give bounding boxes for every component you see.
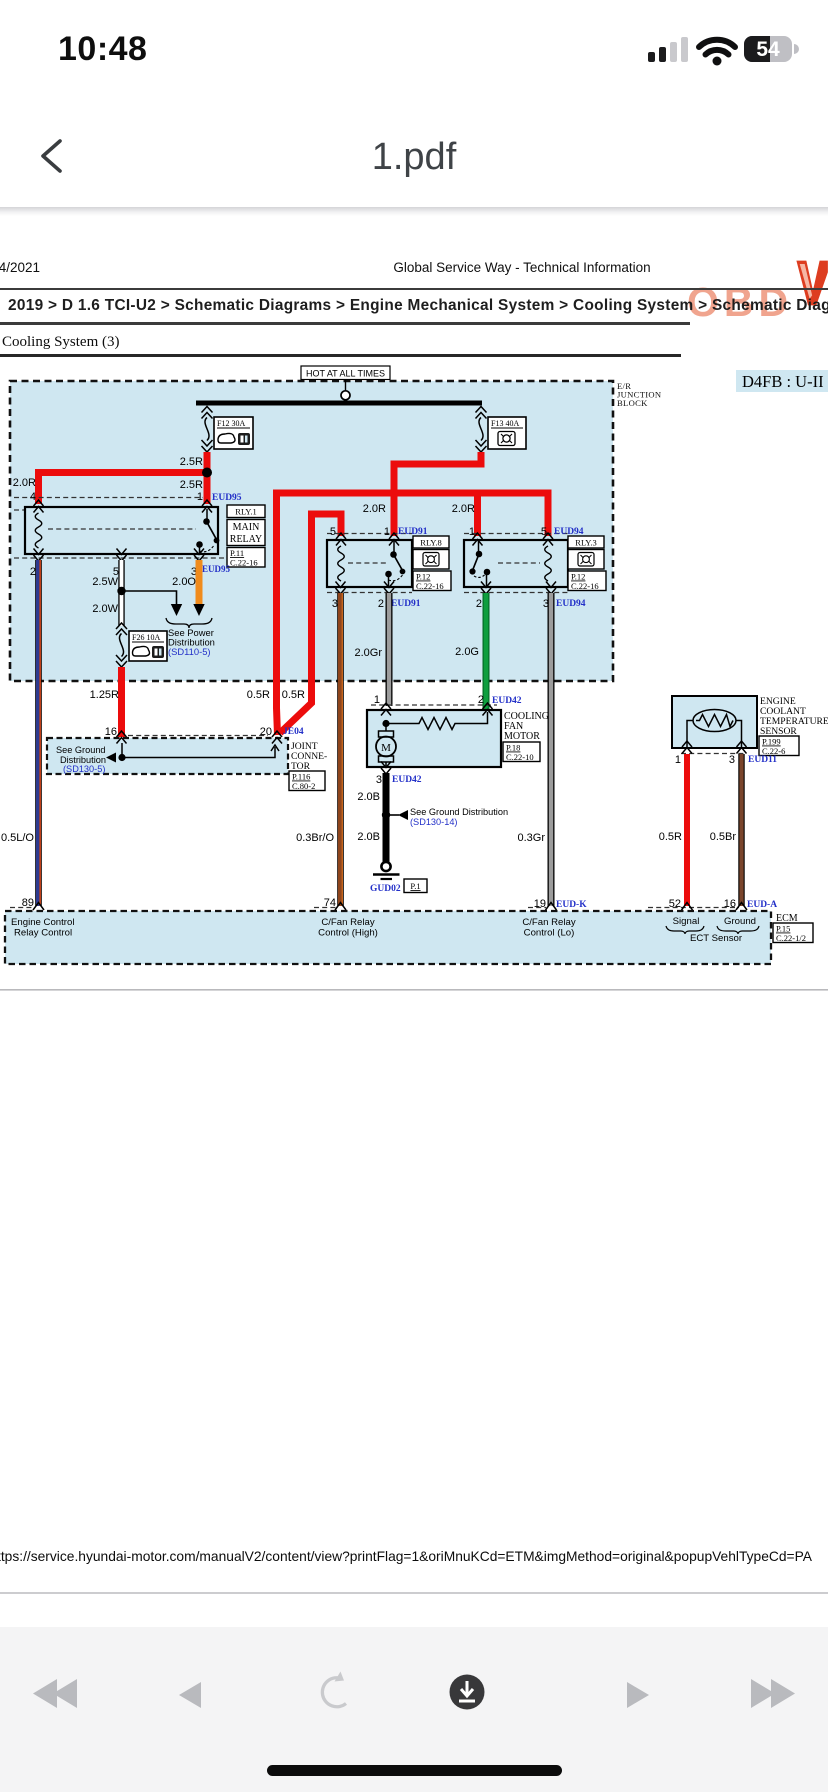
pin 3 xyxy=(543,598,549,610)
svg-text:2.0O: 2.0O xyxy=(172,576,196,588)
svg-text:20: 20 xyxy=(260,726,272,738)
svg-text:2.0B: 2.0B xyxy=(357,831,380,843)
svg-text:P.12: P.12 xyxy=(416,572,430,582)
svg-text:RLY.1: RLY.1 xyxy=(235,507,256,517)
value 0.5Br xyxy=(710,831,737,843)
pin 1 xyxy=(675,754,681,766)
node (hot feed) xyxy=(341,391,350,400)
pin 3 xyxy=(191,566,197,578)
pin symbol ECM-74 xyxy=(335,903,346,911)
label MAIN RELAY xyxy=(227,520,265,546)
svg-text:2.0Gr: 2.0Gr xyxy=(354,647,382,659)
svg-text:EUD95: EUD95 xyxy=(202,564,231,574)
refresh xyxy=(322,1672,346,1707)
wire 0.5R (C/Fan high feed) xyxy=(277,493,278,735)
svg-text:2: 2 xyxy=(476,598,482,610)
motor connector row xyxy=(371,704,497,706)
value 2.0G xyxy=(455,646,479,658)
wire 0.5R (ECT signal) xyxy=(684,754,690,906)
fan relay 2 connector rows xyxy=(464,534,568,593)
net GUD02 xyxy=(370,884,401,894)
svg-text:C/Fan Relay: C/Fan Relay xyxy=(321,917,375,928)
svg-text:0.5R: 0.5R xyxy=(247,689,270,701)
download xyxy=(450,1675,485,1710)
wire 2.0G xyxy=(483,593,490,711)
E/R junction block (shaded area) xyxy=(10,381,613,681)
value 2.5W xyxy=(92,576,118,588)
net C/Fan Relay Control (Lo) xyxy=(522,917,576,939)
coil (fan relay 1) xyxy=(338,546,345,581)
wire 0.5L/O (engine control relay) xyxy=(38,560,40,906)
pin symbol relay pin1 xyxy=(202,500,212,513)
label ENGINE COOLANT TEMPERATURE SENSOR xyxy=(760,696,828,737)
main relay connector row xyxy=(14,498,232,559)
fan relay 1 connector rows xyxy=(327,534,412,593)
value 0.3Br/O xyxy=(296,832,334,844)
svg-text:EUD11: EUD11 xyxy=(748,755,777,765)
pin symbol ECM-89 xyxy=(33,903,44,911)
svg-text:MOTOR: MOTOR xyxy=(504,731,540,742)
pin symbol fanrelay1 pin2 xyxy=(384,582,394,595)
svg-text:See Ground Distribution: See Ground Distribution xyxy=(410,807,508,817)
pin symbol JE04-20 xyxy=(272,731,282,744)
motor M xyxy=(376,724,396,768)
svg-text:GUD02: GUD02 xyxy=(370,884,401,894)
pin 2 xyxy=(378,598,384,610)
svg-text:BLOCK: BLOCK xyxy=(617,398,648,408)
svg-text:Control (High): Control (High) xyxy=(318,928,378,939)
svg-text:16: 16 xyxy=(105,726,117,738)
net Ground xyxy=(724,916,756,927)
fuse F12 30A xyxy=(202,407,213,453)
thermistor (ECT) xyxy=(687,710,742,749)
svg-text:2: 2 xyxy=(30,566,36,578)
svg-text:52: 52 xyxy=(669,898,681,910)
svg-text:2.5W: 2.5W xyxy=(92,576,118,588)
pin 5 xyxy=(330,526,336,538)
value 2.0B xyxy=(357,791,380,803)
battery with percent xyxy=(744,36,799,62)
svg-text:5: 5 xyxy=(330,526,336,538)
wire 0.3Br/O xyxy=(340,593,342,906)
pin 5 xyxy=(541,526,547,538)
svg-text:2.0G: 2.0G xyxy=(455,646,479,658)
label P.199 C.22-6 xyxy=(759,736,799,756)
pin symbol fanrelay2 pin5 xyxy=(543,533,553,546)
label P.12 C.22-16 xyxy=(568,571,606,591)
svg-text:2.0R: 2.0R xyxy=(452,503,475,515)
svg-text:3: 3 xyxy=(332,598,338,610)
pin 1 xyxy=(197,491,203,503)
connector EUD42 xyxy=(392,775,422,785)
connector EUD91 xyxy=(398,527,428,537)
switch (fan relay 2) xyxy=(470,541,490,587)
pin 3 xyxy=(376,774,382,786)
pin symbol ECM-52 xyxy=(682,903,693,911)
connector EUD91 xyxy=(391,599,421,609)
svg-text:89: 89 xyxy=(22,897,34,909)
svg-text:1.25R: 1.25R xyxy=(90,689,119,701)
home indicator xyxy=(267,1765,562,1776)
connector EUD94 xyxy=(554,527,584,537)
pin symbol fanrelay1 pin1 xyxy=(389,533,399,546)
svg-text:C/Fan Relay: C/Fan Relay xyxy=(522,917,576,928)
wire 2.0O xyxy=(196,560,203,604)
svg-text:2.0R: 2.0R xyxy=(363,503,386,515)
svg-text:2: 2 xyxy=(378,598,384,610)
pin symbol relay pin5 xyxy=(117,549,127,562)
svg-text:HOT AT ALL TIMES: HOT AT ALL TIMES xyxy=(306,369,385,379)
svg-text:ECT Sensor: ECT Sensor xyxy=(690,933,743,944)
pin symbol ECT pin3 xyxy=(737,741,747,754)
svg-text:1: 1 xyxy=(374,694,380,706)
pin symbol fanrelay1 pin3 xyxy=(336,582,346,595)
label P.1 xyxy=(404,879,427,893)
value 2.0R xyxy=(452,503,475,515)
page separator xyxy=(0,989,828,991)
svg-text:P.15: P.15 xyxy=(776,924,790,934)
value 0.5R xyxy=(247,689,270,701)
pin 2 xyxy=(478,694,484,706)
pin symbol ECM-19 xyxy=(546,903,557,911)
connector EUD95 xyxy=(202,564,231,574)
connector EUD94 xyxy=(556,599,586,609)
svg-text:1: 1 xyxy=(675,754,681,766)
svg-text:2.5R: 2.5R xyxy=(180,479,203,491)
connector EUD42 xyxy=(492,696,522,706)
svg-text:Ground: Ground xyxy=(724,916,756,927)
pin 16 xyxy=(724,898,736,910)
pin symbol fanrelay2 pin2 xyxy=(481,582,491,595)
svg-text:MAIN: MAIN xyxy=(233,522,260,533)
watermark xyxy=(687,279,793,326)
pin symbol JE04-16 xyxy=(117,731,127,744)
pin 52 xyxy=(669,898,681,910)
joint connector row xyxy=(128,735,268,737)
ECT connector row xyxy=(681,753,746,755)
wire 2.0R from F13 xyxy=(394,452,481,536)
pin symbol motor pin2 xyxy=(483,703,493,716)
relay fan-1 box xyxy=(327,540,412,587)
value 2.0R xyxy=(13,477,36,489)
label RLY.1 xyxy=(227,505,265,518)
wire 2.0B xyxy=(383,773,390,862)
svg-text:EUD42: EUD42 xyxy=(392,775,422,785)
arrow (power distribution O) xyxy=(193,604,204,616)
svg-text:Control (Lo): Control (Lo) xyxy=(524,928,575,939)
pin 3 xyxy=(729,754,735,766)
label P.15 C.22-1/2 xyxy=(773,923,813,943)
arrow (power distribution W) xyxy=(171,604,182,616)
value 2.5R xyxy=(180,479,203,491)
svg-text:F26 10A: F26 10A xyxy=(132,633,160,642)
connector EUD-K xyxy=(556,900,587,910)
cellular bars xyxy=(648,37,688,62)
svg-text:C.22-1/2: C.22-1/2 xyxy=(776,933,806,943)
pin symbol ECM-16 xyxy=(736,903,747,911)
svg-text:F12 30A: F12 30A xyxy=(217,419,245,428)
svg-text:0.5L/O: 0.5L/O xyxy=(1,832,34,844)
label P.11 C.22-16 xyxy=(227,548,265,568)
wire 2.5R from F12 to main relay pin1 xyxy=(204,452,211,504)
wire 2.0R to main relay pin4 xyxy=(39,473,208,505)
fuse F13 40A xyxy=(476,407,487,453)
svg-text:C.22-16: C.22-16 xyxy=(230,558,258,568)
pin symbol relay pin3 xyxy=(194,549,204,562)
note See Ground Distribution xyxy=(410,807,508,827)
svg-text:(SD130-5): (SD130-5) xyxy=(63,764,105,774)
pin 20 xyxy=(260,726,272,738)
wire 2.0R to fan relay 1 pin1 xyxy=(474,493,481,536)
svg-text:0.5Br: 0.5Br xyxy=(710,831,737,843)
label JOINT CONNECTOR xyxy=(291,741,327,772)
svg-text:4: 4 xyxy=(30,491,36,503)
pin 3 xyxy=(332,598,338,610)
svg-text:19: 19 xyxy=(534,898,546,910)
svg-text:2.0B: 2.0B xyxy=(357,791,380,803)
value 1.25R xyxy=(90,689,119,701)
svg-text:P.199: P.199 xyxy=(762,737,781,747)
svg-text:C.22-16: C.22-16 xyxy=(571,581,599,591)
value 2.5R xyxy=(180,456,203,468)
joint connector JE04 box xyxy=(47,738,288,774)
svg-text:M: M xyxy=(381,742,391,754)
icon fan relay 2 xyxy=(568,550,604,570)
svg-text:F13 40A: F13 40A xyxy=(491,419,519,428)
svg-text:RLY.8: RLY.8 xyxy=(420,538,441,548)
svg-text:74: 74 xyxy=(324,897,336,909)
svg-text:C.22-10: C.22-10 xyxy=(506,752,534,762)
value 2.0W xyxy=(92,603,118,615)
branch arrow to ground distribution xyxy=(386,810,408,820)
junction on 2.0B xyxy=(382,811,390,819)
svg-text:RELAY: RELAY xyxy=(230,534,262,545)
svg-text:1: 1 xyxy=(384,526,390,538)
net C/Fan Relay Control (High) xyxy=(318,917,378,939)
brace ground xyxy=(717,926,759,934)
value 2.0R xyxy=(363,503,386,515)
svg-text:0.5R: 0.5R xyxy=(659,831,682,843)
svg-text:EUD42: EUD42 xyxy=(492,696,522,706)
svg-text:3: 3 xyxy=(376,774,382,786)
svg-text:D4FB : U-II: D4FB : U-II xyxy=(742,372,824,391)
motor M letter xyxy=(381,742,391,754)
label RLY.8 xyxy=(413,536,449,548)
svg-text:See Ground: See Ground xyxy=(56,745,106,755)
pin 89 xyxy=(22,897,34,909)
ECM connector rows xyxy=(10,907,739,909)
resistor (fan low speed) xyxy=(386,712,488,730)
pin 74 xyxy=(324,897,336,909)
label P.116 C.80-2 xyxy=(289,771,325,791)
junction xyxy=(202,468,212,478)
svg-text:0.5R: 0.5R xyxy=(282,689,305,701)
wire 0.5R (C/Fan relay pin5 loop) xyxy=(280,514,341,733)
switch (main relay) xyxy=(197,509,219,554)
ECM box xyxy=(5,911,771,964)
pin symbol relay pin4 xyxy=(34,500,44,513)
net Engine Control Relay Control xyxy=(11,917,74,939)
svg-text:JE04: JE04 xyxy=(283,727,304,737)
svg-text:EUD-K: EUD-K xyxy=(556,900,587,910)
pin 19 xyxy=(534,898,546,910)
brace signal xyxy=(666,926,704,934)
fuse F26 10A xyxy=(116,623,127,667)
power bus bar xyxy=(196,401,482,406)
svg-text:P.11: P.11 xyxy=(230,548,244,558)
svg-text:2.5R: 2.5R xyxy=(180,456,203,468)
coil (main relay) xyxy=(35,513,42,548)
svg-text:EUD94: EUD94 xyxy=(556,599,586,609)
arrow (ground distribution) xyxy=(106,753,116,763)
svg-text:C.22-16: C.22-16 xyxy=(416,581,444,591)
svg-text:2: 2 xyxy=(478,694,484,706)
ECT sensor box xyxy=(672,696,757,748)
pin symbol motor pin3 xyxy=(381,762,391,775)
value 0.5R xyxy=(282,689,305,701)
junction on 2.5W xyxy=(117,587,125,595)
svg-text:Signal: Signal xyxy=(673,916,700,927)
branch to power distribution xyxy=(122,591,177,604)
svg-text:P.12: P.12 xyxy=(571,572,585,582)
wire 1.25R xyxy=(118,667,125,737)
svg-text:2.0R: 2.0R xyxy=(13,477,36,489)
wire jumper in JE04 xyxy=(122,743,279,758)
label P.12 C.22-16 xyxy=(413,571,451,591)
value 0.5R xyxy=(659,831,682,843)
junction JE04 xyxy=(118,754,125,761)
pin symbol motor pin1 xyxy=(381,703,391,716)
svg-text:EUD-A: EUD-A xyxy=(747,900,777,910)
net Signal xyxy=(673,916,700,927)
svg-text:1: 1 xyxy=(197,491,203,503)
svg-text:(SD130-14): (SD130-14) xyxy=(410,817,458,827)
pin 1 xyxy=(374,694,380,706)
relay fan-2 box xyxy=(464,540,568,587)
E/R junction block label xyxy=(617,381,662,408)
svg-text:0.3Gr: 0.3Gr xyxy=(517,832,545,844)
switch (fan relay 1) xyxy=(386,541,405,587)
cooling fan motor box xyxy=(367,710,501,767)
svg-text:2.0W: 2.0W xyxy=(92,603,118,615)
connector JE04 xyxy=(283,727,304,737)
node label HOT AT ALL TIMES xyxy=(301,366,390,390)
svg-text:16: 16 xyxy=(724,898,736,910)
svg-text:C.80-2: C.80-2 xyxy=(292,781,315,791)
svg-text:RLY.3: RLY.3 xyxy=(575,538,596,548)
pin 1 xyxy=(469,526,475,538)
svg-text:P.18: P.18 xyxy=(506,743,520,753)
connector EUD-A xyxy=(747,900,777,910)
label ECM xyxy=(776,913,798,924)
pin symbol fanrelay2 pin1 xyxy=(473,533,483,546)
relay U-main box xyxy=(25,507,218,554)
value 2.0O xyxy=(172,576,196,588)
value 0.3Gr xyxy=(517,832,545,844)
pin symbol fanrelay1 pin5 xyxy=(336,533,346,546)
wire 0.5Br (ECT ground) xyxy=(738,754,744,906)
pin 16 xyxy=(105,726,117,738)
icon fan relay 1 xyxy=(413,550,449,570)
svg-text:P.116: P.116 xyxy=(292,772,310,782)
svg-text:(SD110-5): (SD110-5) xyxy=(168,646,211,657)
svg-text:EUD95: EUD95 xyxy=(212,493,242,503)
svg-text:Relay Control: Relay Control xyxy=(14,928,72,939)
svg-text:Engine Control: Engine Control xyxy=(11,917,74,928)
pin 2 xyxy=(30,566,36,578)
junction (motor) xyxy=(382,720,389,727)
wifi xyxy=(699,40,735,66)
pin symbol relay pin2 xyxy=(34,549,44,562)
pin 1 xyxy=(384,526,390,538)
connector EUD11 xyxy=(748,755,777,765)
label RLY.3 xyxy=(568,536,604,548)
net ECT Sensor xyxy=(690,933,743,944)
brace power distribution xyxy=(166,618,212,628)
connector EUD95 xyxy=(212,493,242,503)
svg-text:3: 3 xyxy=(729,754,735,766)
pin symbol ECT pin1 xyxy=(682,741,692,754)
coil (fan relay 2) xyxy=(545,546,552,581)
wire 2.0Gr xyxy=(386,593,393,706)
label COOLING FAN MOTOR xyxy=(504,711,549,742)
note See Power Distribution xyxy=(168,627,215,657)
value 0.5L/O xyxy=(1,832,34,844)
title block D4FB : U-II xyxy=(736,370,828,392)
pin 5 xyxy=(113,566,119,578)
value 2.0Gr xyxy=(354,647,382,659)
wire 2.0R distribution bus xyxy=(277,493,549,536)
svg-text:P.1: P.1 xyxy=(410,881,420,891)
pin 4 xyxy=(30,491,36,503)
wire 0.3Gr xyxy=(548,593,555,906)
pin 2 xyxy=(476,598,482,610)
note See Ground Distribution xyxy=(56,745,106,774)
pin symbol fanrelay2 pin3 xyxy=(546,582,556,595)
value 2.0B xyxy=(357,831,380,843)
svg-text:0.3Br/O: 0.3Br/O xyxy=(296,832,334,844)
label P.18 C.22-10 xyxy=(503,742,540,762)
svg-text:EUD91: EUD91 xyxy=(391,599,421,609)
ground GUD02 xyxy=(373,862,400,879)
wire 2.5W xyxy=(118,560,124,626)
